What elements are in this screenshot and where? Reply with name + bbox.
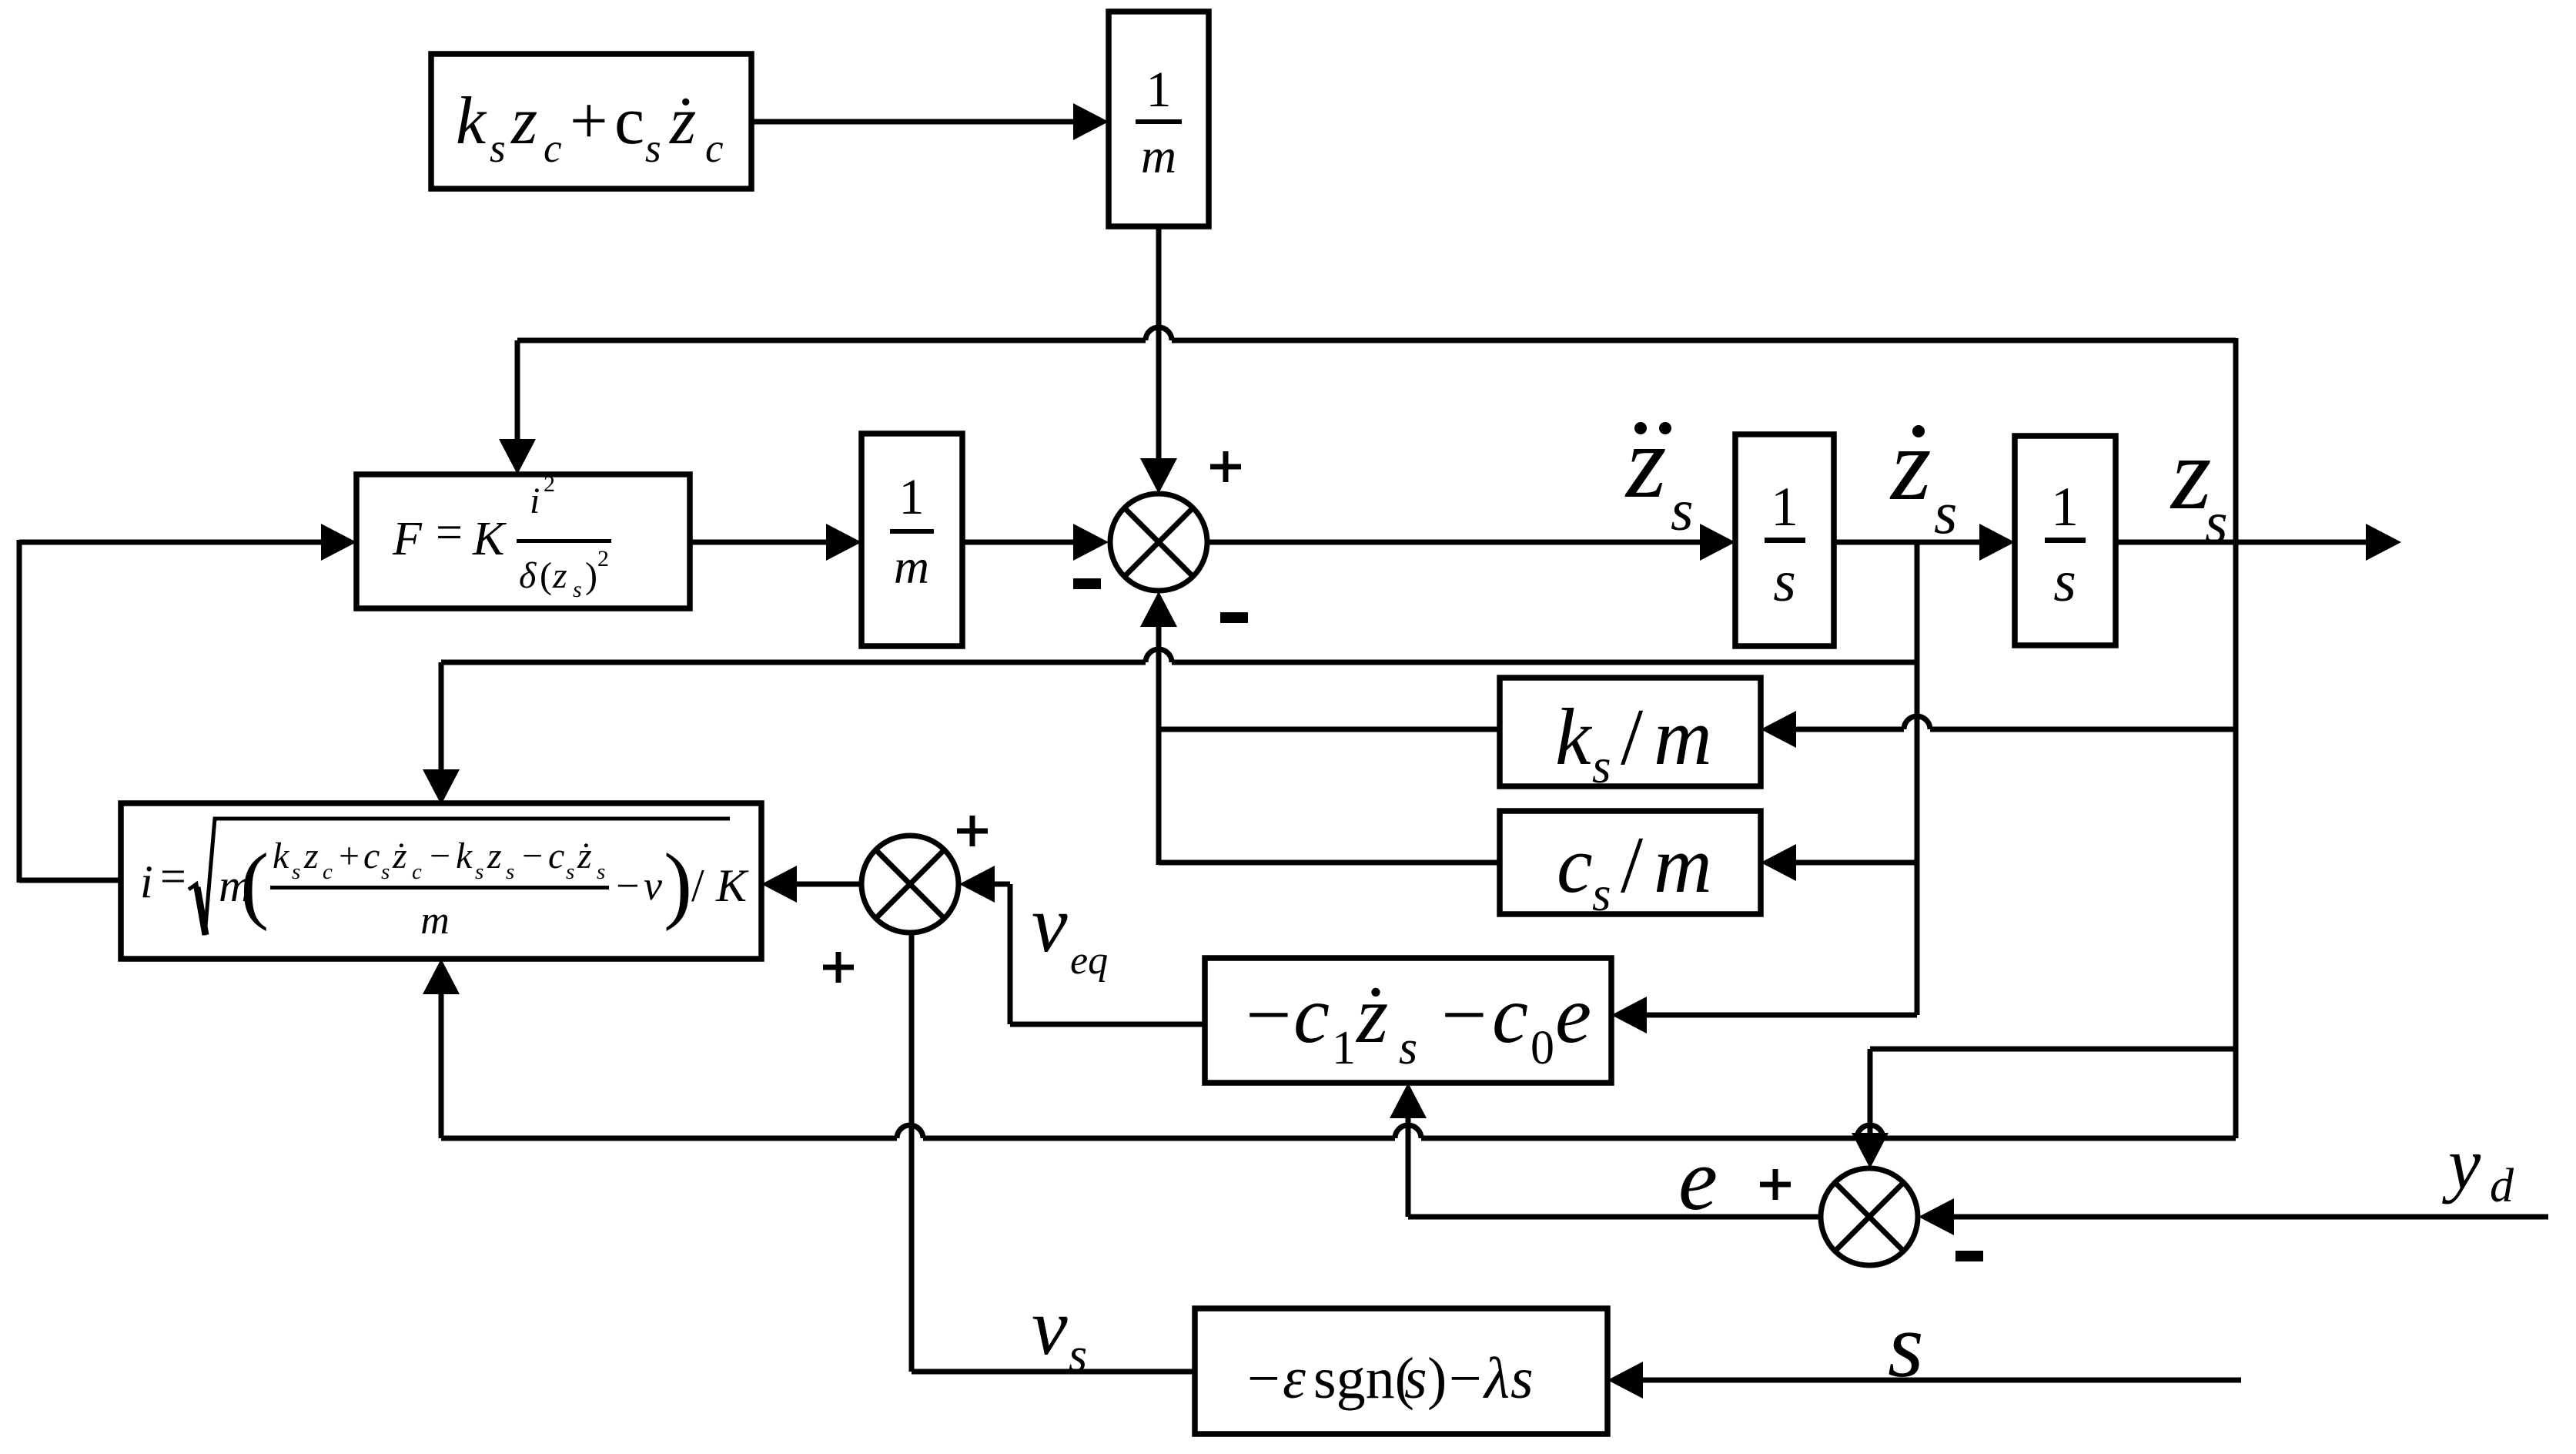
svg-text:ż: ż (392, 836, 407, 876)
svg-text:ż: ż (1355, 970, 1388, 1060)
svg-text:v: v (1032, 1281, 1068, 1372)
wire: e output from S3 up into -c1zs-c0e bottom (1408, 1214, 1821, 1220)
svg-text:K: K (472, 513, 507, 565)
svg-text:z: z (1889, 407, 1932, 522)
svg-text:v: v (1032, 879, 1068, 969)
svg-text:−: − (1246, 970, 1292, 1060)
svg-text:=: = (160, 851, 186, 902)
svg-text:s: s (1671, 478, 1694, 543)
wire: branch from right vertical to S3 top (1870, 1047, 2236, 1052)
svg-text:s: s (1404, 1346, 1427, 1411)
label plus at S1 top (1210, 464, 1241, 470)
svg-text:eq: eq (1070, 939, 1108, 983)
svg-text:s: s (1399, 1022, 1417, 1074)
wire: zs feedback right vertical (2233, 338, 2239, 1138)
block B9 fraction bar (270, 886, 609, 889)
block B8 cs/m (1500, 811, 1761, 914)
label minus at S1 bottom right (1220, 612, 1248, 623)
node: zs feedback top line with hop over S1 input (517, 338, 1146, 343)
svg-text:1: 1 (1146, 62, 1172, 118)
svg-text:k: k (456, 836, 473, 876)
wire: ks/m input from right vertical with hop (1793, 727, 1904, 732)
svg-text:λ: λ (1483, 1346, 1510, 1411)
svg-text:s: s (2053, 549, 2076, 614)
svg-text:c: c (544, 126, 562, 171)
svg-text:s: s (1888, 1294, 1924, 1396)
svg-text:y: y (2442, 1123, 2481, 1204)
svg-text:0: 0 (1531, 1022, 1554, 1074)
svg-text:c: c (323, 859, 333, 884)
wire: zs long bottom feedback line with hops, up into i block bottom (441, 1136, 897, 1141)
summing junction S2 (861, 836, 958, 933)
block B9 i equation (121, 803, 761, 959)
wire: F block to 1/m gain block (690, 540, 829, 545)
svg-text:s: s (1592, 867, 1611, 921)
block B4 1/m gain (861, 434, 962, 646)
svg-text:1: 1 (899, 469, 925, 525)
svg-text:1: 1 (1771, 476, 1798, 538)
svg-text:+: + (570, 84, 608, 159)
svg-text:(: ( (540, 555, 552, 596)
wire: yd input into S3 (1951, 1214, 2548, 1220)
svg-text:−: − (1441, 970, 1487, 1060)
block B11 -eps sgn(s)-lambda s (1195, 1308, 1607, 1434)
svg-text:d: d (2490, 1160, 2514, 1212)
svg-text:c: c (548, 836, 564, 876)
svg-text:2: 2 (597, 546, 609, 571)
svg-text:m: m (1654, 819, 1712, 910)
svg-text:z: z (552, 555, 567, 596)
svg-text:(: ( (240, 836, 269, 932)
block B9 radical (189, 819, 730, 935)
svg-text:sgn(: sgn( (1313, 1346, 1414, 1411)
svg-text:s: s (645, 126, 661, 171)
svg-text:m: m (1141, 129, 1176, 183)
svg-text:ε: ε (1283, 1346, 1306, 1411)
svg-text:s: s (475, 859, 483, 884)
svg-text:s: s (566, 859, 574, 884)
wire: ks/m output to S1 lower vertical (1159, 727, 1500, 732)
svg-text:s: s (1773, 549, 1796, 614)
svg-text:): ) (664, 836, 692, 932)
label plus at S3 top (1760, 1182, 1791, 1188)
svg-text:−: − (616, 863, 639, 909)
svg-text:z: z (303, 836, 319, 876)
svg-text:e: e (1678, 1131, 1718, 1228)
block B1 kszc+cszc-dot (431, 54, 751, 189)
svg-text:m: m (1654, 692, 1712, 782)
wire: zs-dot line to i block top (hop over S1 lower vertical) (441, 660, 1146, 665)
svg-text:s: s (490, 126, 506, 171)
svg-text:v: v (644, 863, 662, 909)
block B5 integrator 1/s (1735, 434, 1834, 646)
svg-text:ż: ż (577, 836, 592, 876)
block B7 ks/m (1500, 678, 1761, 786)
svg-text:s: s (2205, 491, 2228, 555)
label plus at S2 bottom (823, 965, 854, 970)
svg-text:m: m (894, 539, 929, 594)
svg-text:c: c (412, 859, 422, 884)
svg-text:): ) (585, 555, 597, 596)
svg-text:K: K (715, 860, 749, 911)
svg-text:z: z (510, 84, 537, 159)
svg-text:k: k (273, 836, 290, 876)
svg-text:1: 1 (1332, 1022, 1356, 1074)
svg-text:s: s (1592, 739, 1611, 793)
wire: cs/m input from zs-dot vertical (1793, 860, 1917, 866)
label minus at S1 left (1073, 578, 1101, 589)
svg-text:z: z (487, 836, 502, 876)
block B2 1/m top (1109, 12, 1209, 226)
svg-text:s: s (1934, 479, 1957, 546)
wire: cs/m output then up into S1 bottom (1159, 860, 1500, 866)
svg-text:c: c (363, 836, 380, 876)
block B6 integrator 1/s second (2015, 436, 2116, 645)
wire: zs-dot tap vertical down (1915, 542, 1920, 1015)
svg-text:/: / (1621, 819, 1644, 910)
svg-text:s: s (1069, 1329, 1087, 1382)
svg-text:+: + (339, 836, 360, 876)
svg-text:/: / (1621, 692, 1644, 782)
wire: S2 output into i block right edge (794, 882, 861, 887)
svg-text:F: F (392, 513, 423, 565)
wire: vs line from sliding block up to S2 bottom (909, 933, 915, 1372)
svg-text:c: c (1492, 970, 1528, 1060)
svg-text:1: 1 (2051, 476, 2079, 538)
wire: s input into sliding mode block (1640, 1378, 2241, 1383)
wire: kszc box to 1/m block (751, 119, 1076, 125)
summing junction S3 (1821, 1168, 1918, 1265)
svg-text:s: s (1510, 1346, 1534, 1411)
svg-text:c: c (1557, 819, 1593, 910)
svg-text:c: c (614, 84, 644, 159)
svg-text:s: s (381, 859, 390, 884)
svg-text:ż: ż (669, 84, 696, 159)
svg-text:): ) (1427, 1346, 1447, 1411)
svg-text:s: s (573, 577, 582, 602)
wire arrow into -c1zs-c0e right edge (1644, 1013, 1917, 1018)
svg-text:−: − (1247, 1346, 1280, 1411)
svg-text:k: k (1555, 692, 1593, 782)
summing junction S1 (1110, 494, 1207, 591)
svg-text:−: − (522, 836, 543, 876)
svg-text:−: − (1449, 1346, 1482, 1411)
svg-text:s: s (506, 859, 514, 884)
wire: 1/m block down to summing junction S1, plus arrowhead (1156, 226, 1162, 461)
svg-text:z: z (1624, 405, 1667, 520)
wire: S1 to integrator 1/s first (1207, 540, 1703, 545)
wire: 1/s first to 1/s second (1834, 540, 1982, 545)
label minus at S3 right (1955, 1251, 1983, 1261)
wire: i block output feedback to F block input (19, 878, 121, 883)
svg-text:s: s (292, 859, 300, 884)
wire: 1/m gain to summing junction S1 (962, 540, 1076, 545)
svg-text:=: = (436, 507, 463, 559)
svg-text:m: m (420, 899, 450, 943)
svg-text:k: k (456, 84, 487, 159)
wire: zs output arrow (2116, 540, 2369, 545)
svg-text:i: i (530, 481, 540, 521)
svg-text:i: i (140, 856, 153, 907)
svg-text:e: e (1555, 970, 1591, 1060)
block B10 -c1zs-c0e (1205, 958, 1611, 1083)
svg-text:2: 2 (544, 471, 555, 497)
svg-text:−: − (430, 836, 450, 876)
svg-text:δ: δ (519, 555, 537, 596)
svg-text:c: c (705, 126, 724, 171)
wire: down arrow into F block top (515, 340, 520, 442)
svg-text:/: / (691, 860, 704, 911)
svg-text:s: s (597, 859, 605, 884)
svg-text:c: c (1293, 970, 1330, 1060)
wire: veq from -c1zs-c0e block to S2 (1010, 1022, 1205, 1027)
block B3 F=K i^2/d(zs)^2 (356, 474, 690, 608)
label plus at S2 right (957, 829, 988, 834)
